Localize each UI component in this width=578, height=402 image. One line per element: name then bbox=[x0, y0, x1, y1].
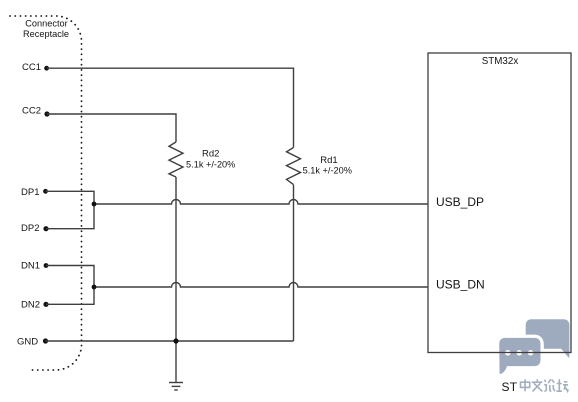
ground symbol bbox=[169, 383, 183, 391]
pin dot DN2 bbox=[43, 302, 48, 307]
watermark small bubble white gap outline bbox=[499, 338, 540, 374]
svg-text:DN1: DN1 bbox=[21, 261, 40, 272]
wire DN2 to junction bbox=[46, 287, 94, 304]
watermark glyph lun bbox=[544, 379, 555, 391]
pin dot DP2 bbox=[43, 226, 48, 231]
resistor Rd2 bbox=[169, 142, 183, 177]
wire CC1 to Rd1 top bbox=[47, 68, 294, 147]
svg-text:5.1k +/-20%: 5.1k +/-20% bbox=[303, 166, 352, 176]
wire Rd2 bottom to GND rail bbox=[175, 177, 177, 341]
junction dot USB_DP node bbox=[92, 202, 97, 207]
wire DP2 to junction bbox=[46, 204, 94, 229]
svg-text:CC1: CC1 bbox=[22, 62, 41, 73]
watermark small speech bubble bbox=[499, 338, 540, 374]
watermark bubble dots bbox=[505, 350, 533, 356]
junction dot GND-Rd2 node bbox=[173, 338, 178, 343]
wire USB_DN to STM32x with hops bbox=[94, 283, 428, 288]
svg-text:Rd2: Rd2 bbox=[202, 149, 219, 160]
pin dot CC2 bbox=[44, 111, 49, 116]
svg-text:5.1k +/-20%: 5.1k +/-20% bbox=[186, 160, 235, 170]
label Connector Receptacle bbox=[23, 18, 69, 39]
svg-text:ST: ST bbox=[502, 380, 518, 394]
svg-text:DP1: DP1 bbox=[21, 187, 39, 198]
svg-text:Connector: Connector bbox=[25, 18, 67, 28]
svg-text:USB_DN: USB_DN bbox=[436, 277, 485, 291]
watermark glyph tan bbox=[557, 379, 569, 391]
wire DN1 to junction bbox=[46, 266, 94, 288]
svg-text:Rd1: Rd1 bbox=[320, 155, 337, 166]
svg-text:GND: GND bbox=[17, 337, 38, 348]
svg-text:CC2: CC2 bbox=[22, 106, 41, 117]
resistor Rd1 bbox=[287, 148, 301, 185]
IC U1 STM32x box bbox=[428, 53, 571, 353]
connector receptacle dotted boundary bbox=[10, 16, 82, 370]
pin dot GND bbox=[43, 338, 48, 343]
junction dot USB_DN node bbox=[92, 285, 97, 290]
wire Rd1 bottom to GND rail bbox=[293, 185, 295, 341]
watermark glyph zhong bbox=[521, 379, 530, 391]
wire USB_DP to STM32x with hops bbox=[94, 200, 428, 205]
pin dot DN1 bbox=[44, 263, 49, 268]
svg-text:USB_DP: USB_DP bbox=[436, 195, 484, 209]
watermark glyph wen bbox=[532, 379, 543, 391]
pin dot CC1 bbox=[44, 66, 49, 71]
watermark logo big speech bubble bbox=[526, 319, 570, 357]
wire GND rail bbox=[46, 340, 294, 342]
wire DP1 to junction bbox=[46, 191, 95, 204]
svg-text:DP2: DP2 bbox=[21, 223, 39, 234]
wire GND rail to ground symbol bbox=[175, 341, 177, 383]
svg-text:DN2: DN2 bbox=[21, 300, 40, 311]
svg-text:STM32x: STM32x bbox=[482, 56, 519, 67]
wire CC2 to Rd2 top bbox=[47, 114, 176, 142]
pin dot DP1 bbox=[43, 189, 48, 194]
svg-text:Receptacle: Receptacle bbox=[23, 29, 69, 39]
